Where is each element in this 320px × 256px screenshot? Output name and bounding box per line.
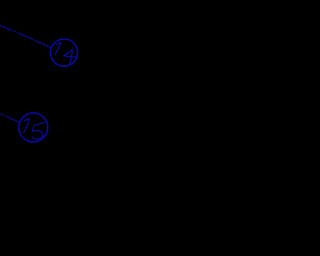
wire: leader line to node 14	[0, 24, 51, 47]
label digit 5 of 15	[32, 122, 44, 139]
wire: leader line to node 15	[1, 114, 20, 123]
label digit 1 of 14	[55, 43, 61, 55]
label digit 1 of 15	[24, 119, 30, 133]
label digit 4 of 14	[64, 50, 76, 65]
node 14 callout circle	[50, 39, 77, 66]
node 15 callout circle	[19, 113, 48, 142]
